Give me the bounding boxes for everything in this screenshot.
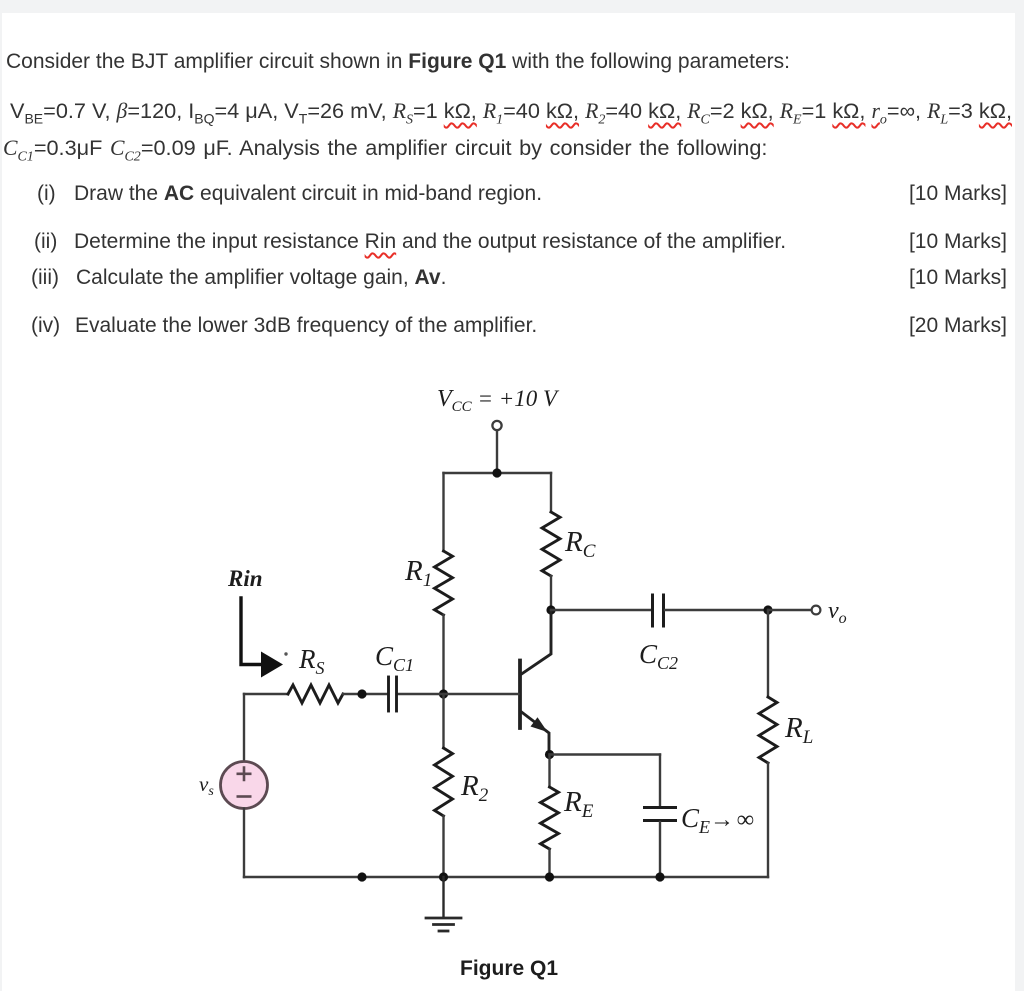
wire: R1 bottom	[442, 615, 444, 694]
label CE infinity	[681, 803, 754, 837]
wire: source left vertical bottom	[243, 809, 245, 878]
node: output junction	[763, 605, 772, 614]
Vcc supply terminal	[492, 421, 501, 430]
list item iii	[31, 266, 59, 290]
svg-text:RL: RL	[784, 712, 813, 748]
wire: RC bottom to collector node	[550, 576, 552, 610]
label Rin	[227, 566, 263, 591]
wire: CC2 to output node	[665, 609, 768, 611]
svg-text:CE→ ∞: CE→ ∞	[681, 803, 754, 837]
wire: R2 bottom	[442, 816, 444, 877]
label CC2	[639, 639, 678, 673]
label vo	[828, 598, 847, 627]
capacitor CC1	[389, 677, 397, 711]
wire: top rail	[444, 472, 552, 474]
resistor R2	[435, 748, 453, 816]
label R1	[404, 555, 432, 591]
node: rail dot 1	[357, 872, 366, 881]
list item iv	[31, 314, 60, 338]
node: base junction	[439, 689, 448, 698]
svg-text:Rin: Rin	[227, 566, 263, 591]
label dot before RS	[284, 652, 287, 655]
ground	[426, 877, 461, 931]
label R2	[460, 770, 489, 806]
svg-text:Figure Q1: Figure Q1	[460, 957, 558, 980]
svg-text:RC: RC	[564, 526, 596, 562]
label RC	[564, 526, 596, 562]
paragraph line 3	[3, 135, 767, 161]
resistor RE	[541, 787, 559, 849]
Rin arrow	[241, 598, 283, 678]
capacitor CE	[645, 808, 676, 821]
label CC1	[375, 641, 414, 675]
svg-text:vo: vo	[828, 598, 847, 627]
transistor Q1	[520, 610, 551, 754]
svg-text:VCC = +10 V: VCC = +10 V	[437, 386, 560, 415]
resistor RC	[542, 512, 560, 576]
wire: RL top	[767, 610, 769, 697]
resistor R1	[435, 551, 453, 615]
svg-text:RE: RE	[563, 786, 594, 822]
resistor RL	[759, 697, 777, 763]
svg-text:CC1: CC1	[375, 641, 414, 675]
node: collector junction	[546, 605, 555, 614]
wire: emitter to CE branch	[550, 753, 661, 755]
wire: output stub	[768, 609, 811, 611]
label RL	[784, 712, 813, 748]
label Figure Q1	[460, 957, 558, 980]
svg-text:R2: R2	[460, 770, 489, 806]
paragraph line 2 (parameters)	[10, 98, 1012, 124]
svg-text:CC2: CC2	[639, 639, 678, 673]
wire: source left vertical top	[243, 694, 245, 761]
wire: RL bottom	[767, 763, 769, 877]
wire: RS to CC1	[343, 693, 387, 695]
node: RS/CC1 junction	[357, 689, 366, 698]
node: rail dot R2	[439, 872, 448, 881]
wire: source to RS	[244, 693, 288, 695]
label VCC value	[437, 386, 560, 415]
wire: RE bottom	[548, 849, 550, 877]
resistor RS	[288, 685, 343, 703]
wire: Vcc stub	[496, 430, 498, 473]
wire: bottom rail	[244, 876, 768, 878]
wire: CE top	[659, 755, 661, 807]
wire: R1 top	[442, 473, 444, 551]
label vs	[199, 772, 214, 799]
svg-text:RS: RS	[298, 644, 325, 678]
voltage source vs	[221, 762, 268, 809]
wire: collector to CC2	[551, 609, 651, 611]
svg-text:R1: R1	[404, 555, 432, 591]
node: emitter junction	[545, 750, 554, 759]
node: rail dot CE	[655, 872, 664, 881]
list item i	[37, 182, 56, 206]
svg-text:vs: vs	[199, 772, 214, 799]
output terminal vo	[812, 606, 821, 615]
label RS	[298, 644, 325, 678]
label RE	[563, 786, 594, 822]
wire: base	[398, 693, 519, 695]
capacitor CC2	[653, 595, 664, 626]
list item ii	[34, 230, 57, 254]
wire: R2 top	[442, 694, 444, 748]
node: rail dot RE	[545, 872, 554, 881]
node: Vcc rail junction	[492, 468, 501, 477]
paragraph line 1	[6, 50, 790, 74]
wire: RC top	[550, 473, 552, 512]
wire: CE bottom	[659, 822, 661, 877]
wire: RE top	[548, 755, 550, 788]
